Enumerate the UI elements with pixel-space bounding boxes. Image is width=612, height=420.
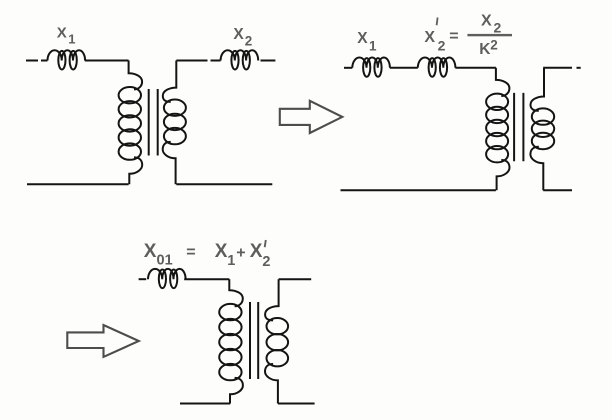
svg-text:2: 2 bbox=[494, 20, 502, 36]
svg-text:2: 2 bbox=[490, 38, 498, 53]
svg-text:2: 2 bbox=[438, 38, 446, 54]
svg-text:1: 1 bbox=[369, 38, 377, 53]
svg-text:X: X bbox=[250, 241, 263, 262]
svg-text:01: 01 bbox=[157, 253, 173, 269]
svg-text:2: 2 bbox=[262, 254, 270, 270]
svg-text:X: X bbox=[233, 26, 244, 43]
svg-text:X: X bbox=[215, 241, 228, 262]
svg-text:X: X bbox=[481, 13, 492, 30]
svg-text:X: X bbox=[57, 25, 67, 42]
svg-text:X: X bbox=[357, 30, 368, 47]
svg-text:X: X bbox=[144, 241, 157, 262]
svg-text:1: 1 bbox=[68, 31, 75, 46]
svg-text:1: 1 bbox=[227, 253, 235, 269]
svg-text:X: X bbox=[424, 29, 435, 46]
svg-text:2: 2 bbox=[245, 34, 253, 49]
svg-text:=: = bbox=[449, 28, 458, 45]
svg-text:+: + bbox=[236, 245, 245, 262]
svg-text:=: = bbox=[186, 244, 195, 261]
